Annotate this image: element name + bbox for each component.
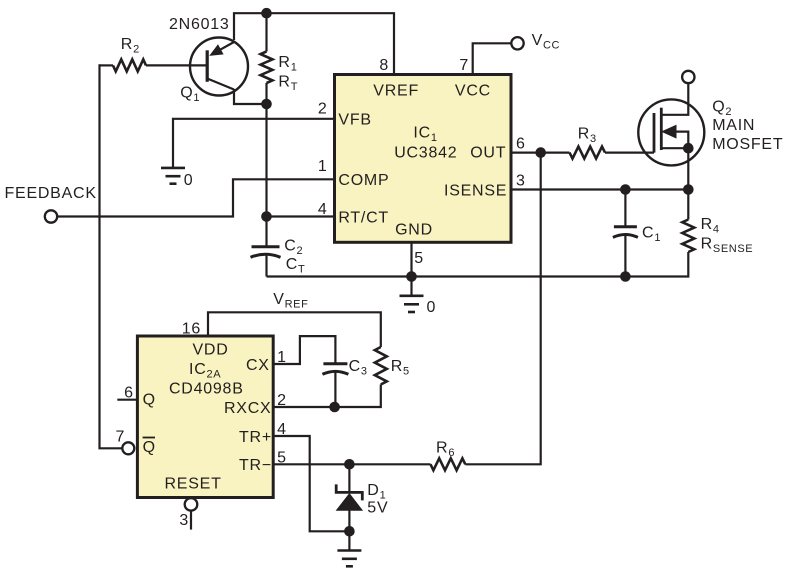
transistor Q2 MOSFET: [638, 83, 704, 165]
svg-text:RESET: RESET: [165, 476, 222, 493]
wire D1 ground stem: [348, 531, 350, 550]
svg-text:RT/CT: RT/CT: [338, 210, 389, 227]
node junction C3 RXCX: [329, 402, 340, 413]
transistor Q1: [190, 38, 248, 96]
wire VFB pin2 to ground: [173, 119, 335, 168]
svg-text:0: 0: [427, 299, 437, 316]
wire ground rail under IC1: [267, 252, 689, 277]
svg-text:MOSFET: MOSFET: [712, 136, 783, 153]
svg-text:VCC: VCC: [455, 83, 491, 100]
node junction RT/CT C2: [261, 211, 272, 222]
wire Q1 emitter to node: [234, 89, 267, 104]
resistor R4 RSENSE: [682, 220, 694, 253]
node junction Q2 source: [683, 143, 694, 154]
wire TR- pin5 to R6: [273, 463, 430, 465]
wire Q1 base left segment: [100, 64, 114, 66]
svg-text:CX: CX: [246, 357, 270, 374]
svg-text:16: 16: [182, 321, 201, 338]
svg-text:TR−: TR−: [239, 457, 272, 474]
terminal RESET bubble: [185, 498, 198, 511]
resistor R6: [431, 458, 466, 470]
wire OUT pin6 to R3: [511, 152, 570, 154]
svg-text:VDD: VDD: [193, 342, 229, 359]
svg-text:1: 1: [318, 158, 328, 175]
svg-text:5: 5: [414, 250, 424, 267]
wire node column down to RT/CT: [265, 104, 267, 217]
ground at D1: [337, 551, 361, 567]
wire R1 top lead: [265, 13, 267, 51]
node junction D1 anode ground: [344, 526, 355, 537]
node junction OUT: [535, 147, 546, 158]
wire left vertical from R2 down to IC2A pin 7: [100, 64, 123, 448]
resistor R3: [570, 147, 606, 159]
node junction TR- D1: [344, 459, 355, 470]
svg-text:7: 7: [459, 57, 469, 74]
resistor R1 RT: [261, 52, 273, 84]
wire RESET stub: [190, 511, 192, 530]
node junction ISENSE R4: [683, 184, 694, 195]
svg-text:TR+: TR+: [239, 429, 272, 446]
svg-text:2N6013: 2N6013: [169, 16, 230, 33]
svg-text:RXCX: RXCX: [224, 400, 271, 417]
svg-text:0: 0: [184, 172, 194, 189]
svg-text:FEEDBACK: FEEDBACK: [5, 185, 97, 202]
wire R3 to Q2 gate: [605, 152, 654, 154]
svg-text:6: 6: [516, 136, 526, 153]
svg-text:CD4098B: CD4098B: [169, 381, 244, 398]
wire R1 bottom lead: [265, 83, 267, 104]
node junction top rail R1: [261, 8, 272, 19]
svg-text:COMP: COMP: [338, 172, 389, 189]
svg-text:MAIN: MAIN: [712, 117, 755, 134]
svg-text:UC3842: UC3842: [394, 145, 457, 162]
wire ISENSE pin3 rail: [511, 188, 688, 190]
svg-text:Q: Q: [143, 392, 156, 409]
wire GND pin5 stub: [410, 242, 412, 296]
capacitor C2 CT: [251, 217, 281, 277]
wire top rail from Q1 collector up to IC1 pin 8: [234, 13, 394, 74]
svg-text:OUT: OUT: [470, 145, 506, 162]
node junction C1 bottom: [620, 271, 631, 282]
svg-text:VFB: VFB: [338, 112, 371, 129]
svg-text:VREF: VREF: [373, 83, 419, 100]
IC U2 CD4098B body: [137, 336, 273, 498]
terminal Q2 drain: [682, 71, 694, 83]
svg-text:8: 8: [379, 57, 389, 74]
ground 0 at pin5: [400, 296, 424, 312]
svg-text:5V: 5V: [367, 500, 388, 517]
terminal FEEDBACK: [45, 210, 57, 222]
svg-text:ISENSE: ISENSE: [444, 183, 507, 200]
svg-text:3: 3: [179, 512, 189, 529]
IC U1 UC3842 body: [335, 75, 512, 243]
svg-text:2: 2: [318, 101, 328, 118]
overline of Qbar: [143, 437, 155, 439]
wire R4 top lead: [687, 190, 689, 220]
wire RT/CT pin4: [267, 215, 335, 217]
svg-text:3: 3: [516, 173, 526, 190]
node junction ISENSE C1: [620, 184, 631, 195]
svg-text:Q: Q: [143, 439, 156, 456]
terminal VCC: [511, 37, 523, 49]
ground 0 at VFB: [161, 168, 185, 184]
wire R5 bottom lead to RXCX: [273, 385, 381, 408]
node junction emitter R1 bottom: [261, 99, 272, 110]
svg-text:4: 4: [318, 201, 328, 218]
capacitor C3: [322, 364, 348, 407]
wire CX pin1 to C3: [273, 336, 335, 364]
resistor R2: [113, 59, 146, 71]
node junction GND pin5: [406, 271, 417, 282]
diode D1 zener: [336, 464, 362, 531]
wire TR+ pin4 to D1 anode: [273, 436, 349, 531]
wire pin6 stub: [117, 399, 137, 401]
svg-text:GND: GND: [395, 222, 433, 239]
wire VCC pin7 to terminal: [473, 43, 512, 74]
wire VDD pin16 to R5: [208, 312, 381, 347]
wire OUT node down to R6: [465, 153, 540, 465]
wire Q1 base right segment: [146, 64, 191, 66]
wire FEEDBACK to COMP pin1: [57, 179, 334, 216]
capacitor C1: [613, 190, 638, 277]
wire Q2 source down to ISENSE: [687, 148, 689, 189]
resistor R5: [375, 347, 387, 385]
terminal pin7 bubble: [122, 442, 134, 454]
